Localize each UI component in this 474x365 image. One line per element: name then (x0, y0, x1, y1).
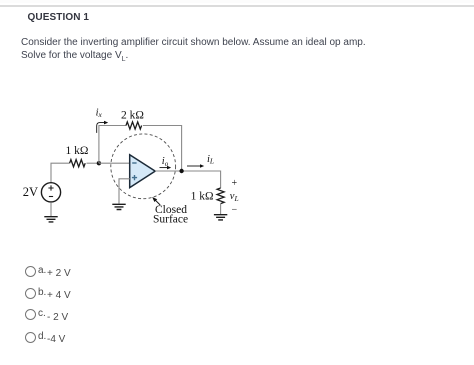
current arrow iL (187, 165, 201, 167)
svg-text:io: io (162, 156, 169, 168)
resistor RL 1 kOhm (load, vertical) (217, 188, 224, 204)
wire feedback: node A up and right to R2 (99, 126, 126, 164)
wire R2 right and down to output node (143, 126, 182, 172)
svg-text:vL: vL (230, 191, 239, 203)
op-amp U1 triangle (130, 155, 156, 188)
ground under source (44, 217, 57, 222)
svg-text:2V: 2V (23, 185, 38, 199)
resistor R2 2 kOhm (feedback) (126, 122, 142, 129)
svg-text:iL: iL (207, 154, 214, 166)
op-amp plus input marker (132, 175, 137, 180)
voltage source V1 2V (41, 183, 60, 202)
op-amp minus input marker (132, 162, 136, 164)
output node B (179, 169, 183, 173)
svg-text:+: + (232, 178, 238, 189)
svg-text:1 kΩ: 1 kΩ (191, 191, 214, 203)
svg-text:−: − (232, 205, 238, 216)
wire load resistor to ground (220, 204, 222, 214)
wire node A to op-amp inverting input (99, 162, 130, 164)
resistor R1 1 kOhm (input) (70, 160, 86, 167)
wire op-amp output to output node and on to load (155, 171, 220, 188)
ground under op-amp plus input (112, 204, 125, 209)
svg-text:ix: ix (96, 107, 103, 119)
ground under load resistor (214, 215, 227, 220)
svg-text:2 kΩ: 2 kΩ (121, 110, 144, 122)
wire from 2V source top up and right to R1 (51, 163, 70, 182)
wire op-amp noninverting input to ground (119, 179, 130, 204)
closed surface pointer arrow (154, 199, 160, 205)
node A (inverting input node) (97, 161, 101, 165)
wire R1 to node A (87, 162, 99, 164)
current arrow ix (97, 123, 105, 133)
current arrow io (160, 167, 168, 169)
svg-text:1 kΩ: 1 kΩ (66, 145, 89, 157)
dashed closed surface circle (111, 134, 176, 199)
svg-text:Surface: Surface (153, 214, 188, 226)
wire 2V source bottom to ground (50, 202, 52, 216)
